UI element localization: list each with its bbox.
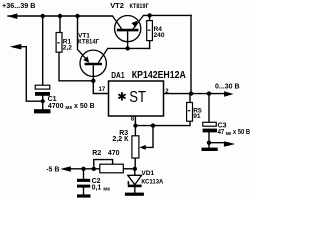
svg-text:0,1 мк: 0,1 мк [92,185,111,193]
wire -5V line [70,168,100,170]
svg-text:0...30 В: 0...30 В [215,83,240,90]
wire R4 top lead [149,15,151,20]
wire common output stub [209,142,224,144]
wire output line pin2 [164,93,225,95]
svg-text:+36...39 В: +36...39 В [2,1,36,10]
wire R4 bottom lead [149,41,151,49]
wire top rail [8,15,112,17]
svg-text:КР142ЕН12А: КР142ЕН12А [132,69,186,81]
node input plus junction dots [41,13,212,171]
node 0...30 V output arrow [224,91,234,96]
wire C2 top lead [83,169,85,179]
wire VD1 bottom lead [134,187,136,192]
wire R1 drop [59,16,61,33]
svg-text:VT2: VT2 [110,1,124,10]
resistor R1 [56,33,72,53]
svg-text:-5 В: -5 В [46,167,59,174]
node -5 V arrow [60,166,71,172]
wire R3 top lead [134,126,136,136]
ground (C1) [34,109,51,113]
svg-text:КТ814Г: КТ814Г [78,38,99,45]
wire input common: arrow to C1 bottom [18,47,43,101]
node common output arrow [224,141,235,146]
capacitor C1 [35,85,95,111]
wire chip bottom pin [134,116,136,126]
wire input C1 drop [42,16,44,85]
svg-text:✱: ✱ [117,92,127,104]
resistor R2 [92,150,123,173]
node input common arrow [10,44,22,50]
capacitor C3 [203,122,251,136]
wire C3 bottom lead [208,132,210,147]
wire R3 wiper [145,126,154,148]
wire VT1 collector to VT2 base rail [108,47,150,49]
wire right drop to output line [190,15,192,93]
svg-text:91: 91 [193,113,201,120]
resistor R4 [147,21,165,41]
transistor VT1 [78,32,108,80]
wire R3 bottom lead [134,158,136,169]
svg-text:4700 мк x 50 В: 4700 мк x 50 В [48,103,95,111]
svg-text:470: 470 [108,150,120,157]
svg-text:2,2: 2,2 [63,45,72,52]
resistor R3 potentiometer [112,130,145,158]
wire VT2 emitter to right drop [144,14,192,16]
diode VD1 zener [128,170,164,187]
wire R1 bottom to VT1 base node [59,52,93,81]
node +36...39 V arrow [8,13,18,19]
svg-text:КТ819Г: КТ819Г [130,3,149,10]
svg-text:R2: R2 [92,150,101,157]
svg-text:2,2 К: 2,2 К [112,136,129,143]
svg-text:ST: ST [129,89,146,106]
op-amp U1 : voltage regulator DA1 box [99,69,187,123]
resistor R5 [187,103,202,122]
svg-text:C1: C1 [48,96,57,103]
wire R5 top lead [189,94,191,103]
svg-text:17: 17 [99,87,106,93]
wire C1 bottom lead [42,96,44,109]
wire R2 right lead [123,168,135,170]
svg-text:VD1: VD1 [141,170,154,177]
ground (VD1) [125,193,144,196]
capacitor C2 [77,178,110,192]
wire R5 bottom to ADJ line [135,121,190,125]
wire VT1 emitter drop [77,16,79,49]
svg-text:240: 240 [154,32,165,39]
ground (C2) [77,194,91,197]
wire VD1 top lead [134,169,136,176]
wire R2 tap [94,160,113,169]
wire C3 top lead [208,94,210,123]
svg-text:КС113А: КС113А [141,178,163,185]
wire C2 bottom lead [83,188,85,195]
svg-text:47 мк x 50 В: 47 мк x 50 В [218,129,251,137]
svg-text:DA1: DA1 [111,71,125,80]
transistor VT2 [110,1,149,48]
ground (C3) [202,148,218,151]
wire VT1 base node to pin 17 [93,81,108,94]
